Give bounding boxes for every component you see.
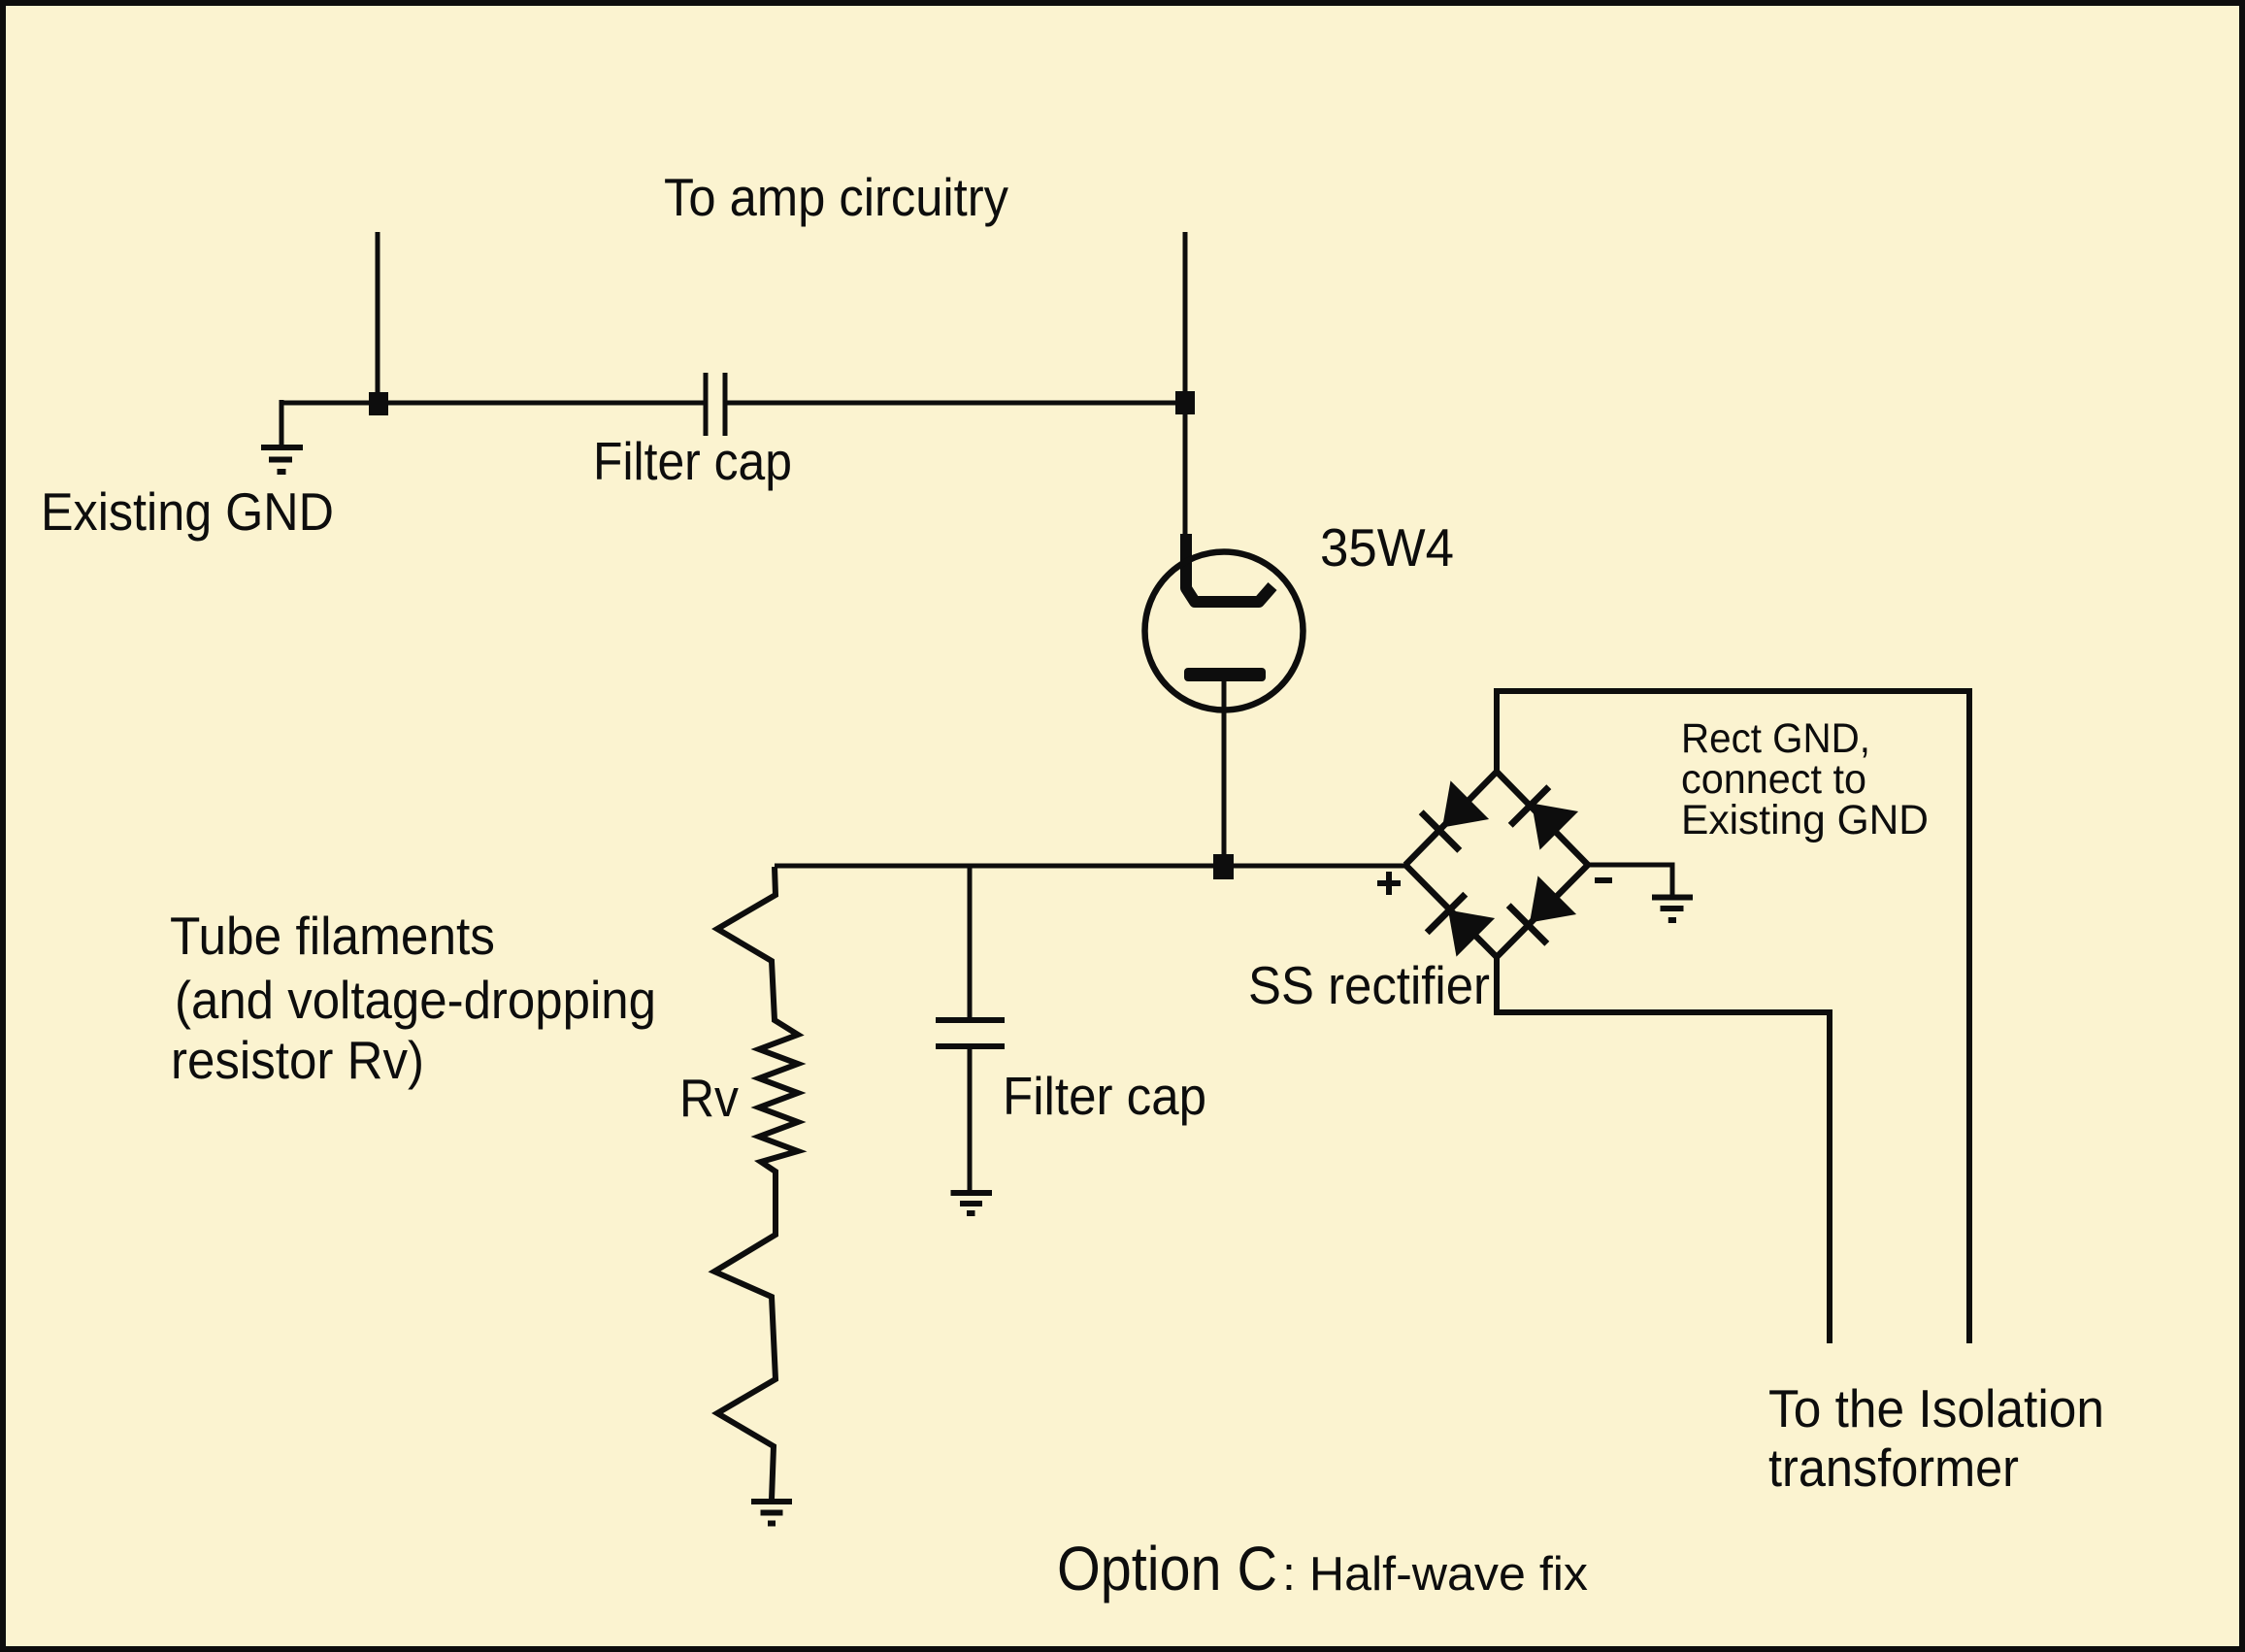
- diode D3 (upper-right): [1510, 787, 1578, 850]
- tube V1: anode plate: [1186, 534, 1272, 602]
- svg-text:resistor Rv): resistor Rv): [171, 1030, 424, 1090]
- svg-text:SS rectifier: SS rectifier: [1248, 955, 1490, 1015]
- resistor Rv: [714, 867, 798, 1500]
- wire: lower horizontal bus: [775, 864, 1405, 869]
- diode D2 (lower-left): [1427, 894, 1495, 956]
- label: + terminal: [1377, 872, 1401, 895]
- capacitor C2 bottom lead: [968, 1046, 973, 1193]
- wire: top horizontal right of cap C1: [725, 401, 1185, 406]
- ground: below Rv: [751, 1502, 792, 1524]
- diode D1 (upper-left): [1421, 780, 1489, 850]
- svg-text:: Half-wave fix: : Half-wave fix: [1282, 1548, 1588, 1601]
- svg-text:Filter cap: Filter cap: [1003, 1066, 1206, 1126]
- svg-text:To the Isolation: To the Isolation: [1768, 1378, 2104, 1438]
- svg-text:Option C: Option C: [1057, 1534, 1277, 1603]
- ground: Rect GND: [1652, 898, 1693, 921]
- svg-text:To amp circuitry: To amp circuitry: [664, 167, 1008, 227]
- svg-text:Tube filaments: Tube filaments: [170, 906, 495, 966]
- diode D4 (lower-right): [1508, 876, 1576, 943]
- svg-text:Rect GND,: Rect GND,: [1681, 715, 1870, 762]
- svg-text:transformer: transformer: [1768, 1437, 2019, 1498]
- capacitor C2 (Filter cap, lower): top lead: [968, 866, 973, 1017]
- svg-text:connect to: connect to: [1681, 756, 1866, 803]
- svg-text:(and voltage-dropping: (and voltage-dropping: [175, 970, 656, 1030]
- wire: bridge AC top to isolation transformer: [1497, 691, 1969, 1343]
- bridge rectifier diamond edges: [1405, 772, 1588, 957]
- capacitor C2 plates: [936, 1020, 1005, 1046]
- wire: cathode lead down: [1222, 680, 1227, 867]
- node: junction under tube: [1213, 854, 1234, 879]
- wire: down to existing gnd: [280, 400, 284, 446]
- wire: left stub vertical: [376, 232, 380, 403]
- label: - terminal: [1595, 877, 1612, 883]
- svg-text:35W4: 35W4: [1320, 517, 1454, 578]
- wire: to-amp vertical (right): [1183, 232, 1188, 403]
- svg-text:Filter cap: Filter cap: [593, 431, 792, 491]
- capacitor C1 (Filter cap, top): [706, 373, 725, 436]
- tube V1: envelope circle: [1145, 552, 1304, 710]
- node: junction at to-amp wire: [1175, 391, 1195, 414]
- wire: bridge AC bottom to isolation transformer: [1497, 957, 1830, 1343]
- tube V1 35W4: anode lead: [1183, 403, 1188, 540]
- tube V1: cathode bar: [1184, 668, 1266, 681]
- ground: below C2: [951, 1193, 993, 1213]
- node: junction at left stub: [369, 392, 388, 415]
- wire: bridge minus to ground: [1588, 865, 1672, 895]
- ground: Existing GND: [261, 447, 303, 472]
- svg-text:Existing GND: Existing GND: [1681, 797, 1929, 843]
- wire: top horizontal left of cap C1: [281, 401, 706, 406]
- svg-text:Rv: Rv: [679, 1068, 739, 1128]
- svg-text:Existing GND: Existing GND: [41, 481, 334, 542]
